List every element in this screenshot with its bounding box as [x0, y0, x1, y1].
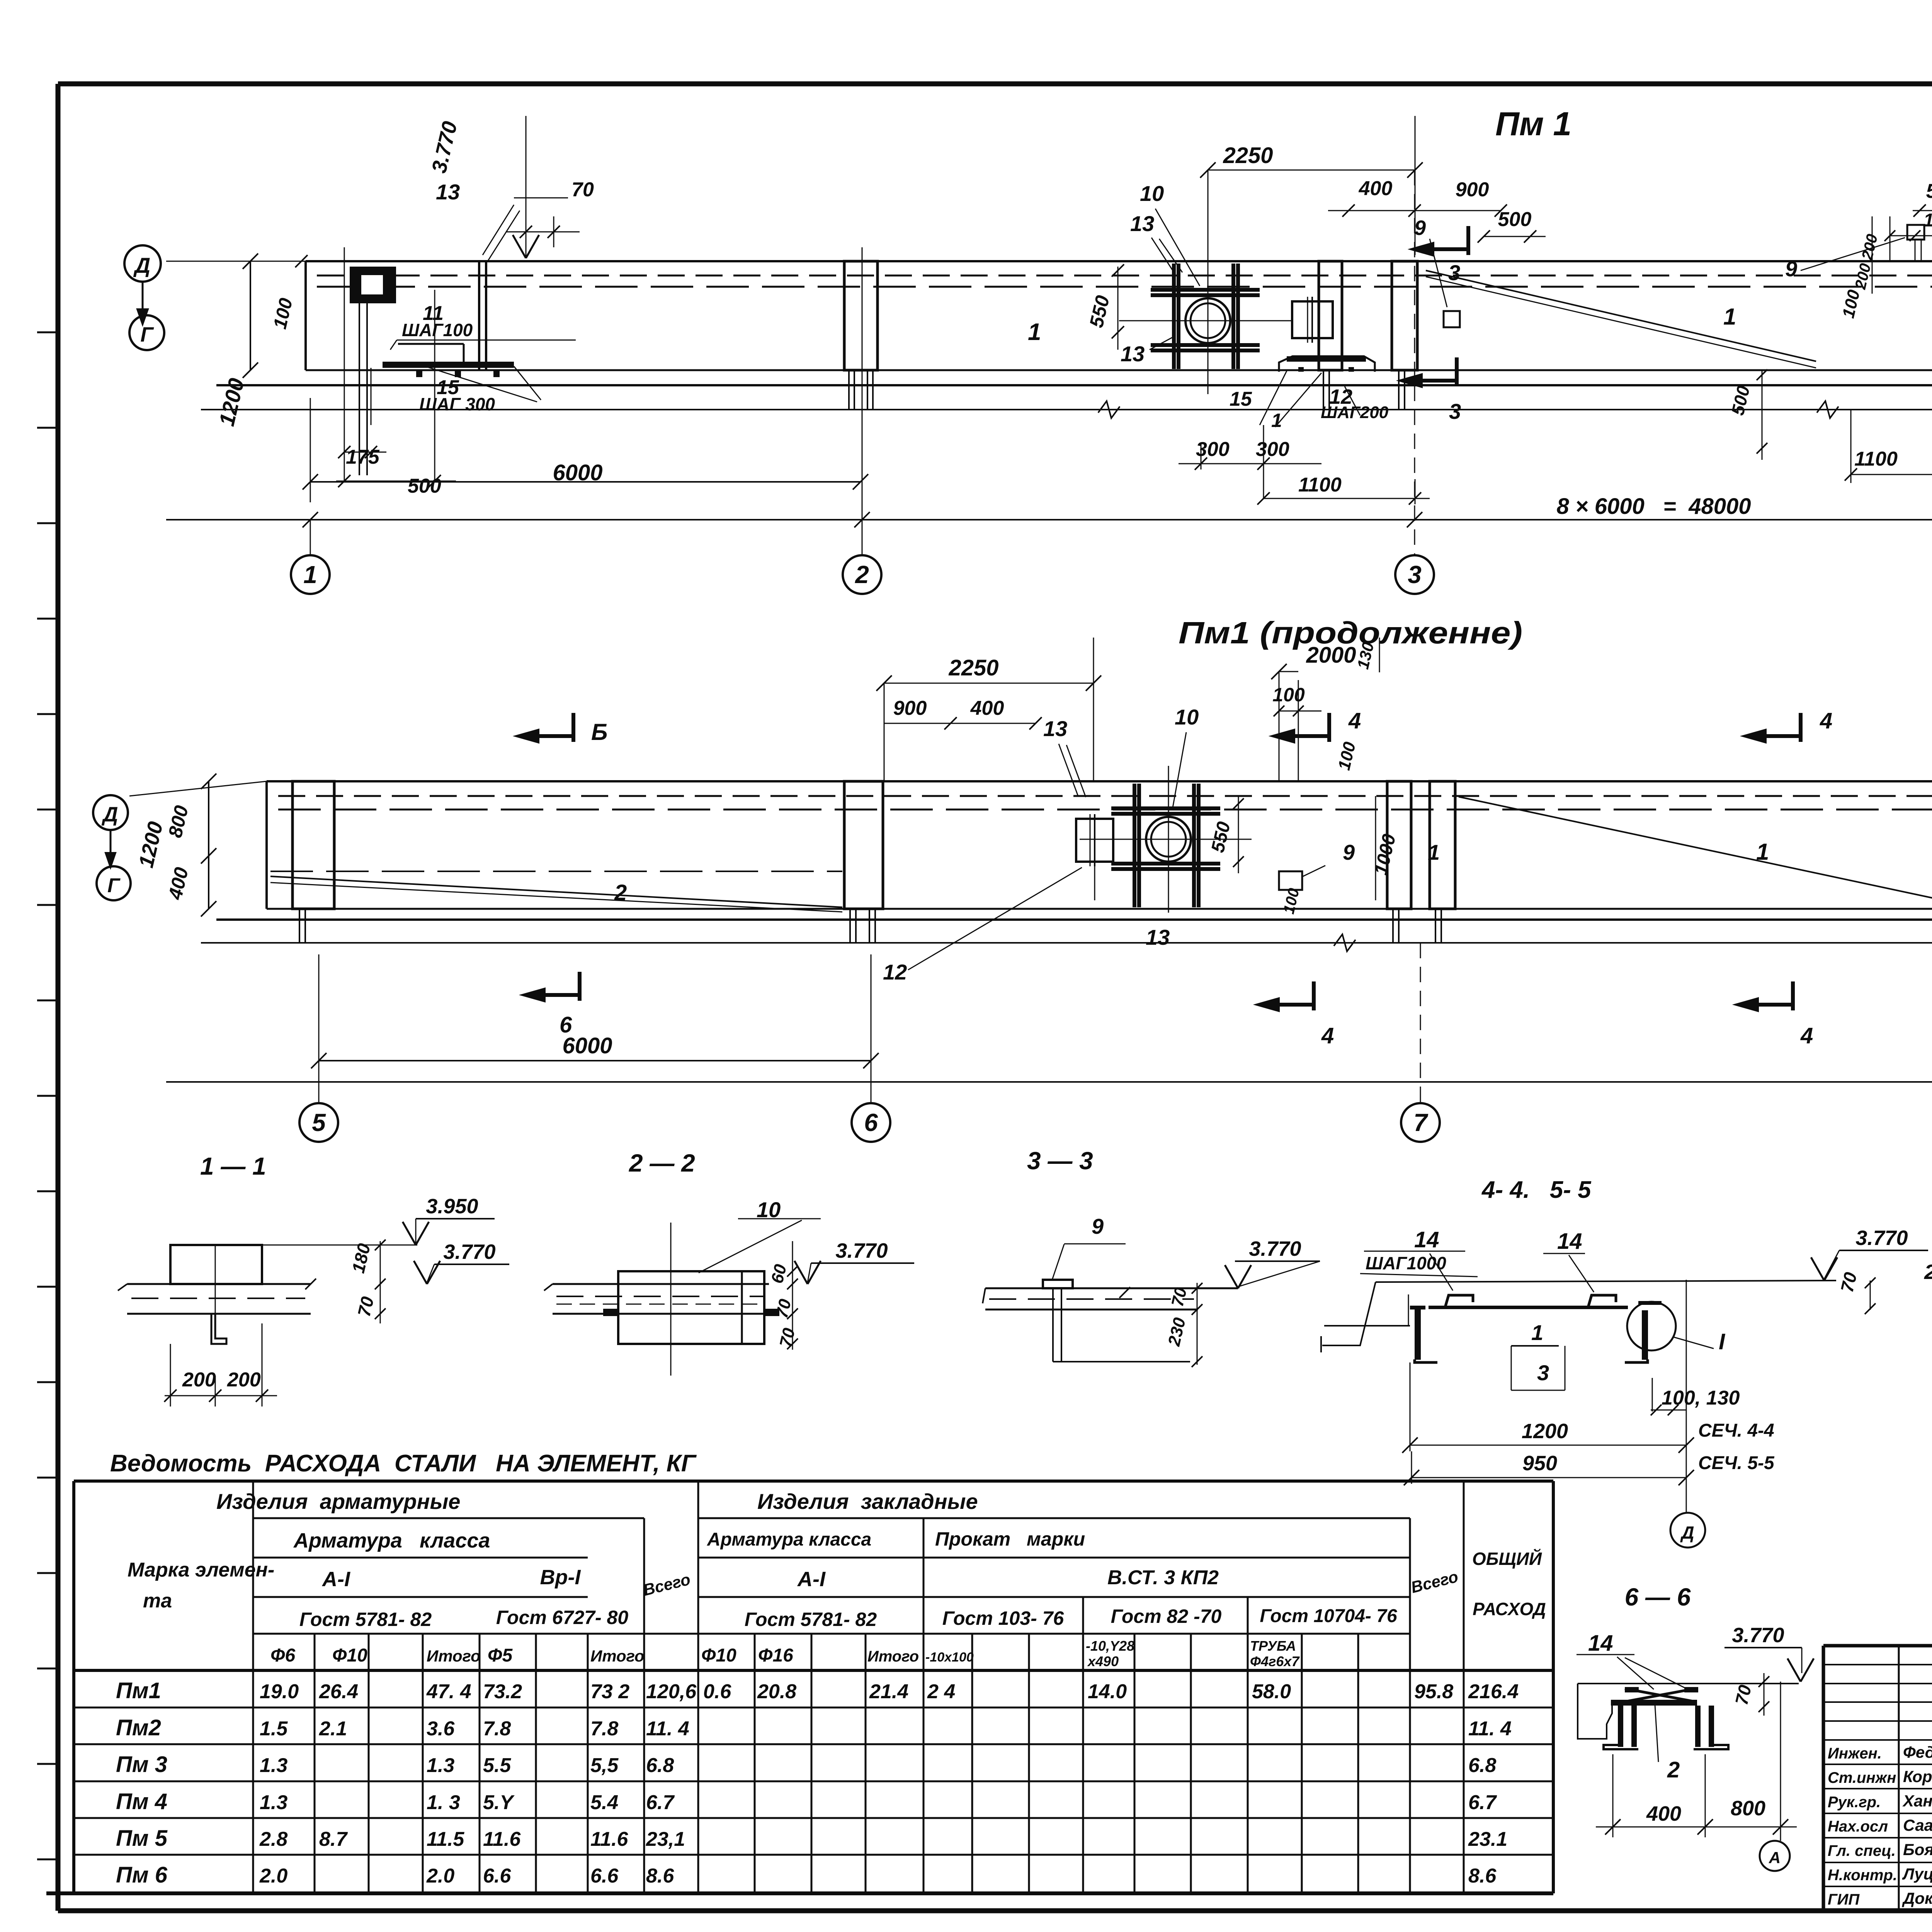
ribs axis7 joint — [1387, 781, 1411, 909]
dim 1200 left top band — [250, 261, 251, 370]
axis circle G second row — [97, 866, 131, 900]
svg-text:Изделия закладные: Изделия закладные — [757, 1489, 978, 1514]
title block frame — [1823, 1644, 1932, 1648]
svg-text:6.8: 6.8 — [646, 1754, 674, 1777]
axis circle 7 — [1401, 1103, 1440, 1142]
svg-text:ШАГ 300: ШАГ 300 — [419, 394, 495, 414]
svg-text:200: 200 — [227, 1369, 261, 1391]
svg-text:Гл. спец.: Гл. спец. — [1828, 1842, 1896, 1859]
svg-text:13: 13 — [1146, 925, 1170, 949]
svg-text:Итого: Итого — [867, 1648, 919, 1665]
dim 500 below band bay4 — [1762, 370, 1763, 460]
table frame — [74, 1480, 1553, 1483]
svg-text:1.3: 1.3 — [260, 1791, 287, 1814]
svg-text:14.0: 14.0 — [1088, 1680, 1127, 1703]
section flag 4 top a — [1327, 713, 1331, 742]
detail 9 second band — [1279, 871, 1302, 890]
svg-text:20.8: 20.8 — [757, 1680, 796, 1703]
svg-text:Гост 5781- 82: Гост 5781- 82 — [299, 1609, 432, 1630]
svg-text:2.0: 2.0 — [259, 1865, 287, 1887]
svg-text:СЕЧ. 5-5: СЕЧ. 5-5 — [1698, 1453, 1775, 1473]
svg-text:1.3: 1.3 — [427, 1754, 454, 1777]
svg-text:1: 1 — [1723, 304, 1736, 330]
section 3-3 drawing — [985, 1287, 1238, 1289]
svg-text:Г: Г — [107, 874, 121, 897]
svg-text:Гост 5781- 82: Гост 5781- 82 — [745, 1609, 877, 1630]
axis circle 2 — [843, 555, 881, 594]
svg-text:200: 200 — [182, 1369, 216, 1391]
svg-text:7.8: 7.8 — [590, 1718, 618, 1740]
svg-text:11.6: 11.6 — [590, 1828, 628, 1850]
svg-text:Докушевск: Докушевск — [1902, 1889, 1932, 1907]
svg-text:ГИП: ГИП — [1828, 1891, 1860, 1908]
embedded channel det15 — [1279, 356, 1375, 372]
dims section 3-3 — [1197, 1283, 1198, 1365]
svg-text:Прокат марки: Прокат марки — [935, 1528, 1085, 1550]
svg-text:500: 500 — [408, 475, 441, 497]
svg-text:Пм1: Пм1 — [116, 1678, 161, 1703]
svg-text:ШАГ100: ШАГ100 — [402, 320, 473, 340]
svg-text:6.6: 6.6 — [590, 1865, 619, 1887]
svg-text:26.4: 26.4 — [319, 1680, 358, 1703]
svg-text:1 — 1: 1 — 1 — [200, 1152, 266, 1180]
svg-text:3 — 3: 3 — 3 — [1027, 1147, 1093, 1175]
svg-text:4: 4 — [1800, 1023, 1813, 1048]
svg-text:13: 13 — [1130, 211, 1154, 236]
svg-text:58.0: 58.0 — [1252, 1680, 1291, 1703]
rib axis2 — [844, 261, 878, 370]
svg-text:1: 1 — [303, 561, 317, 588]
svg-text:3.770: 3.770 — [1732, 1624, 1784, 1647]
section 2-2 drawing — [553, 1283, 769, 1285]
svg-text:Рук.гр.: Рук.гр. — [1828, 1794, 1881, 1811]
svg-text:6000: 6000 — [562, 1033, 612, 1058]
svg-text:7.8: 7.8 — [483, 1718, 511, 1740]
axis circle G top row — [129, 315, 164, 350]
svg-text:1: 1 — [1028, 319, 1041, 345]
section 1-1 drawing — [127, 1283, 311, 1285]
axis circle D small — [1670, 1513, 1705, 1548]
rib axis6 — [844, 781, 883, 909]
signature rows — [1823, 1739, 1932, 1741]
svg-text:-10х100: -10х100 — [925, 1650, 974, 1665]
svg-text:2 4: 2 4 — [927, 1680, 955, 1703]
svg-text:ОБЩИЙ: ОБЩИЙ — [1472, 1549, 1542, 1569]
svg-text:-10,Y28: -10,Y28 — [1086, 1638, 1134, 1654]
taper bay3-4 — [1426, 270, 1816, 361]
svg-text:14: 14 — [1414, 1227, 1439, 1252]
axis circle 6 — [852, 1103, 890, 1142]
svg-text:1: 1 — [1756, 839, 1769, 865]
section 4-4 drawing — [1376, 1281, 1836, 1282]
section flag 3 top — [1466, 226, 1470, 255]
svg-text:0.6: 0.6 — [703, 1680, 731, 1703]
svg-text:12: 12 — [883, 960, 907, 984]
svg-text:10: 10 — [1140, 181, 1164, 206]
svg-text:73.2: 73.2 — [483, 1680, 522, 1703]
svg-text:Пм 5: Пм 5 — [116, 1826, 168, 1851]
section flag 4 bottom a — [1312, 981, 1316, 1010]
svg-text:1. 3: 1. 3 — [427, 1791, 460, 1814]
hole cluster bay2-3 — [1185, 298, 1230, 343]
top plan band main lines — [306, 260, 1932, 262]
svg-text:9: 9 — [1414, 216, 1426, 240]
section flag 6 bottom — [578, 972, 582, 1001]
svg-text:120,6: 120,6 — [646, 1680, 697, 1703]
svg-text:Д: Д — [1680, 1522, 1694, 1543]
axis circle D second row — [93, 795, 128, 830]
svg-text:3.6: 3.6 — [427, 1718, 455, 1740]
svg-text:Пм2: Пм2 — [116, 1715, 161, 1740]
axis circle 3 — [1395, 555, 1434, 594]
svg-text:Ханин: Ханин — [1902, 1792, 1932, 1810]
svg-text:Пм 1: Пм 1 — [1495, 105, 1571, 143]
svg-text:I: I — [1719, 1329, 1726, 1354]
svg-text:3.770: 3.770 — [1249, 1237, 1301, 1260]
section flag B top — [571, 713, 575, 742]
svg-text:2.0: 2.0 — [426, 1865, 454, 1887]
taper bay5-6 — [270, 876, 842, 907]
taper bay7-8 — [1459, 797, 1932, 900]
svg-text:Ф10: Ф10 — [332, 1645, 367, 1666]
svg-text:9: 9 — [1785, 257, 1797, 281]
table vertical lines — [252, 1481, 254, 1893]
svg-text:Ст.инжн: Ст.инжн — [1828, 1769, 1896, 1786]
svg-text:Гост 82 -70: Гост 82 -70 — [1111, 1605, 1222, 1627]
axis circle A — [1760, 1841, 1790, 1871]
axis stems second row — [318, 1074, 320, 1103]
svg-text:500: 500 — [1926, 180, 1932, 202]
svg-text:Луценко: Луценко — [1902, 1865, 1932, 1883]
svg-text:Гост 6727- 80: Гост 6727- 80 — [496, 1607, 628, 1628]
svg-text:В.СТ. 3 КП2: В.СТ. 3 КП2 — [1107, 1566, 1219, 1589]
section flag 4 top b — [1799, 713, 1803, 742]
svg-text:Саакьянч: Саакьянч — [1903, 1816, 1932, 1834]
svg-text:11.5: 11.5 — [427, 1828, 464, 1850]
svg-text:6.8: 6.8 — [1468, 1754, 1496, 1777]
dim 550 cluster1 — [1117, 267, 1119, 350]
svg-text:3.770: 3.770 — [835, 1239, 888, 1262]
svg-text:Г: Г — [140, 323, 154, 346]
svg-text:3: 3 — [1408, 561, 1422, 588]
svg-text:47. 4: 47. 4 — [426, 1680, 471, 1703]
svg-text:10: 10 — [1175, 705, 1199, 729]
svg-text:2.1: 2.1 — [319, 1718, 347, 1740]
svg-text:3.770: 3.770 — [1855, 1226, 1908, 1250]
svg-text:95.8: 95.8 — [1414, 1680, 1453, 1703]
svg-text:8 × 6000 = 48000: 8 × 6000 = 48000 — [1556, 494, 1751, 519]
svg-text:2: 2 — [1667, 1757, 1680, 1782]
left dims second band — [208, 781, 209, 909]
channel plate 4-4 — [1429, 1306, 1628, 1309]
svg-text:А-I: А-I — [321, 1568, 350, 1591]
axis circle 1 — [291, 555, 330, 594]
svg-text:100, 130: 100, 130 — [1662, 1387, 1740, 1409]
svg-text:Ф10: Ф10 — [701, 1645, 736, 1666]
svg-text:500: 500 — [1498, 208, 1532, 231]
svg-text:950: 950 — [1522, 1452, 1557, 1475]
svg-text:14: 14 — [1557, 1229, 1582, 1254]
svg-text:Бояренко: Бояренко — [1903, 1840, 1932, 1859]
svg-text:900: 900 — [893, 697, 927, 719]
svg-text:Пм 6: Пм 6 — [116, 1862, 168, 1888]
axis circle 5b — [299, 1103, 338, 1142]
svg-text:11. 4: 11. 4 — [646, 1718, 689, 1740]
embedded plate bay6-7 — [1076, 819, 1113, 862]
svg-text:РАСХОД: РАСХОД — [1473, 1599, 1546, 1619]
svg-text:2: 2 — [855, 561, 869, 588]
svg-text:1.5: 1.5 — [260, 1718, 288, 1740]
rib axis3 joint — [1319, 261, 1342, 370]
svg-text:70: 70 — [571, 179, 594, 201]
svg-text:8.7: 8.7 — [319, 1828, 348, 1850]
svg-text:А-I: А-I — [797, 1568, 826, 1591]
svg-text:Гост 103- 76: Гост 103- 76 — [942, 1607, 1065, 1629]
svg-text:5.5: 5.5 — [483, 1754, 511, 1777]
svg-text:6: 6 — [864, 1109, 878, 1136]
axis stems top row — [310, 520, 311, 555]
svg-text:6.7: 6.7 — [646, 1791, 675, 1814]
svg-text:Ф6: Ф6 — [270, 1645, 295, 1666]
svg-text:14: 14 — [1588, 1631, 1613, 1656]
svg-text:Ведомость РАСХОДА СТАЛИ НА: Ведомость РАСХОДА СТАЛИ НА ЭЛЕМЕНТ, КГ — [110, 1450, 697, 1477]
svg-text:Н.контр.: Н.контр. — [1828, 1867, 1897, 1884]
svg-text:Итого: Итого — [427, 1647, 481, 1665]
svg-text:Федотова: Федотова — [1903, 1743, 1932, 1761]
svg-text:8.6: 8.6 — [1468, 1865, 1497, 1887]
svg-text:Вр-I: Вр-I — [540, 1566, 581, 1589]
svg-text:Инжен.: Инжен. — [1828, 1745, 1882, 1762]
svg-text:3.770: 3.770 — [443, 1240, 495, 1264]
svg-text:Д: Д — [102, 803, 118, 826]
svg-text:15: 15 — [1230, 388, 1252, 410]
svg-text:8.6: 8.6 — [646, 1865, 674, 1887]
svg-text:2. Защитный слой БЕТОНА: 2. Защитный слой БЕТОНА ДЛЯ АРМАТУРЫ РАВ… — [1924, 1260, 1932, 1284]
svg-text:11.6: 11.6 — [483, 1828, 521, 1850]
svg-text:19.0: 19.0 — [260, 1680, 299, 1703]
svg-text:100: 100 — [1272, 684, 1305, 706]
svg-text:4: 4 — [1321, 1023, 1334, 1048]
svg-text:3.950: 3.950 — [426, 1195, 478, 1218]
svg-text:1200: 1200 — [1522, 1420, 1568, 1443]
long axis line second row — [166, 1081, 1932, 1083]
svg-text:9: 9 — [1343, 840, 1355, 864]
section 6-6 drawing — [1578, 1683, 1799, 1684]
rot dim 200 200 axis4 — [1872, 216, 1873, 294]
svg-text:Итого: Итого — [590, 1647, 645, 1665]
svg-text:3: 3 — [1448, 260, 1460, 285]
svg-text:5,5: 5,5 — [590, 1754, 619, 1777]
svg-text:2.8: 2.8 — [259, 1828, 287, 1850]
svg-text:13: 13 — [436, 180, 460, 204]
svg-text:Ф4г6х7: Ф4г6х7 — [1250, 1653, 1300, 1669]
svg-text:5: 5 — [312, 1109, 326, 1136]
dims section 1-1 — [380, 1241, 381, 1323]
svg-text:6 — 6: 6 — 6 — [1625, 1583, 1691, 1611]
svg-text:Гост 10704- 76: Гост 10704- 76 — [1260, 1606, 1397, 1626]
svg-text:21.4: 21.4 — [869, 1680, 908, 1703]
svg-text:300: 300 — [1256, 438, 1289, 461]
svg-text:4: 4 — [1348, 708, 1361, 733]
svg-text:ШАГ1000: ШАГ1000 — [1366, 1253, 1446, 1273]
embedded plate bay2-3 — [1292, 301, 1333, 338]
svg-text:1: 1 — [1531, 1320, 1543, 1345]
dim 130 rot bay7 top — [1379, 638, 1380, 672]
svg-text:100: 100 — [1923, 210, 1932, 231]
svg-text:Д: Д — [133, 253, 150, 277]
svg-text:1: 1 — [1271, 410, 1282, 431]
svg-text:13: 13 — [1121, 342, 1145, 366]
svg-text:Пм 4: Пм 4 — [116, 1789, 167, 1814]
arrow D to G — [142, 282, 144, 313]
svg-text:А: А — [1769, 1849, 1781, 1867]
dims section 2-2 — [792, 1241, 793, 1350]
svg-text:5.4: 5.4 — [590, 1791, 618, 1814]
svg-text:Марка элемен-: Марка элемен- — [128, 1559, 274, 1581]
svg-text:х490: х490 — [1087, 1653, 1119, 1669]
svg-text:11. 4: 11. 4 — [1468, 1718, 1512, 1740]
svg-text:ТРУБА: ТРУБА — [1250, 1638, 1296, 1654]
rib axis5 end second — [293, 781, 334, 909]
svg-text:СЕЧ. 4-4: СЕЧ. 4-4 — [1698, 1420, 1774, 1441]
svg-text:3: 3 — [1449, 399, 1461, 423]
svg-text:1100: 1100 — [1854, 448, 1898, 470]
svg-text:900: 900 — [1456, 179, 1489, 201]
svg-text:Ф16: Ф16 — [758, 1645, 793, 1666]
svg-text:та: та — [143, 1590, 172, 1612]
svg-text:Коротенко: Коротенко — [1903, 1767, 1932, 1786]
svg-text:2 — 2: 2 — 2 — [629, 1149, 695, 1177]
svg-text:Арматура класса: Арматура класса — [707, 1529, 871, 1550]
svg-text:1100: 1100 — [1298, 474, 1342, 496]
svg-text:9: 9 — [1092, 1214, 1104, 1238]
svg-text:5.Y: 5.Y — [483, 1791, 515, 1814]
detail 9 above band bay4 — [1907, 225, 1924, 240]
svg-text:Нах.осл: Нах.осл — [1828, 1818, 1888, 1835]
mesh bars 13 left — [478, 261, 480, 370]
svg-text:23,1: 23,1 — [646, 1828, 685, 1850]
svg-text:400: 400 — [1359, 177, 1393, 200]
svg-text:Б: Б — [591, 719, 607, 745]
svg-text:Ф5: Ф5 — [488, 1645, 513, 1666]
svg-text:400: 400 — [1646, 1802, 1681, 1825]
svg-text:216.4: 216.4 — [1468, 1680, 1519, 1703]
small washer detail — [1444, 311, 1460, 327]
svg-text:800: 800 — [1731, 1797, 1765, 1820]
table header lines — [253, 1517, 644, 1519]
svg-text:2250: 2250 — [1223, 143, 1273, 168]
svg-text:4- 4. 5- 5: 4- 4. 5- 5 — [1481, 1177, 1592, 1203]
axis circle D top row — [124, 245, 161, 282]
second band main lines — [267, 780, 1932, 782]
dim 550 second cluster — [1238, 796, 1239, 873]
svg-text:73 2: 73 2 — [590, 1680, 629, 1703]
svg-text:13: 13 — [1043, 716, 1067, 741]
svg-text:400: 400 — [970, 697, 1004, 719]
svg-text:3: 3 — [1537, 1361, 1549, 1385]
svg-text:2000: 2000 — [1306, 643, 1356, 668]
svg-text:6.6: 6.6 — [483, 1865, 511, 1887]
svg-text:2: 2 — [614, 880, 627, 905]
svg-text:Изделия арматурные: Изделия арматурные — [216, 1489, 460, 1514]
svg-text:4: 4 — [1820, 708, 1832, 733]
cluster bay6-7 — [1146, 817, 1191, 862]
top band left end anchor detail — [350, 267, 396, 303]
svg-text:Арматура класса: Арматура класса — [293, 1529, 490, 1552]
svg-text:6.7: 6.7 — [1468, 1791, 1497, 1814]
svg-text:2250: 2250 — [948, 655, 998, 680]
section flag 4 bottom b — [1791, 981, 1795, 1010]
svg-text:1.3: 1.3 — [260, 1754, 287, 1777]
svg-text:Пм 3: Пм 3 — [116, 1752, 167, 1777]
detail circle I — [1627, 1302, 1676, 1350]
svg-text:7: 7 — [1413, 1109, 1429, 1136]
title block upper small rows — [1823, 1664, 1932, 1665]
svg-text:23.1: 23.1 — [1468, 1828, 1507, 1850]
